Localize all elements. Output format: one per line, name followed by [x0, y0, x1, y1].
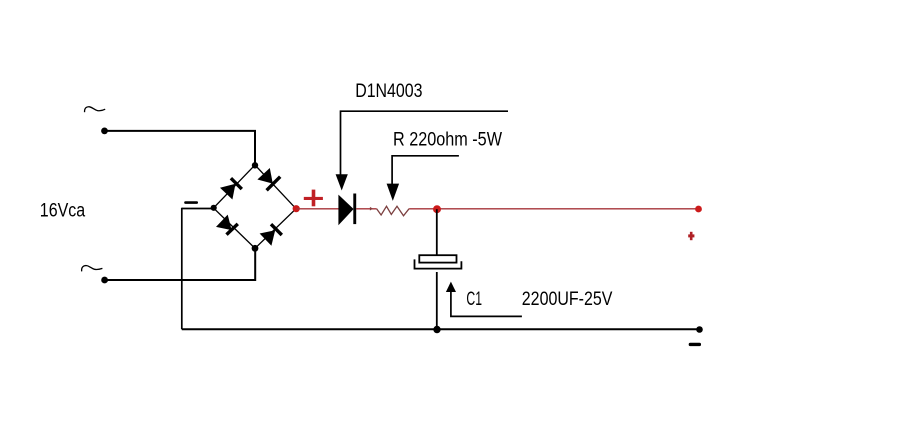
bridge diode bottom-left (anode at - node, cathode at bottom AC node)	[216, 215, 238, 235]
wire: bottom negative rail	[182, 328, 700, 330]
output terminal node minus	[696, 326, 703, 333]
minus polarity mark at output	[689, 343, 701, 346]
svg-text:2200UF-25V: 2200UF-25V	[522, 288, 613, 310]
leader line for R label	[392, 156, 459, 185]
AC terminal node (bottom)	[101, 277, 108, 284]
bridge node top (AC)	[252, 162, 258, 168]
output terminal node plus (red)	[695, 206, 702, 213]
leader arrowhead pointing up at C1	[446, 282, 456, 292]
svg-text:C1: C1	[466, 288, 482, 310]
svg-text:16Vca: 16Vca	[40, 200, 85, 222]
node: junction capacitor to negative rail	[433, 326, 440, 333]
plus polarity mark at output (red)	[688, 232, 694, 240]
diode D1N4003	[338, 194, 356, 226]
wire: bridge minus stub left	[182, 208, 214, 210]
AC terminal node (top)	[101, 127, 108, 134]
AC source tilde symbol (top)	[85, 107, 106, 112]
leader line for D1N4003 label	[341, 111, 509, 176]
wire: capacitor top lead	[436, 209, 438, 255]
leader arrowhead pointing at R	[387, 184, 400, 201]
bridge rectifier diamond outline	[214, 165, 297, 248]
svg-text:R 220ohm -5W: R 220ohm -5W	[393, 129, 502, 151]
bridge diode top-left (anode at - node, cathode at top AC node)	[220, 178, 242, 199]
resistor R (220 ohm zigzag)	[377, 206, 410, 216]
wire: minus branch down the left side	[181, 208, 183, 330]
wire: bottom AC terminal to bridge bottom	[105, 248, 256, 280]
svg-text:D1N4003: D1N4003	[355, 80, 422, 102]
wire: capacitor bottom lead	[436, 272, 438, 329]
bridge diode top-right (anode at top AC node, cathode at + node)	[257, 168, 280, 190]
minus polarity mark at bridge	[184, 201, 198, 204]
bridge node bottom (AC)	[252, 245, 259, 252]
wire: red positive rail resistor to output	[409, 208, 699, 210]
capacitor C1 positive plate	[419, 255, 456, 262]
bridge node right (plus, red)	[293, 205, 300, 212]
leader arrowhead pointing at D1	[336, 174, 348, 190]
node: junction at capacitor branch (red)	[433, 205, 441, 213]
wire: red positive rail from bridge to diode D1	[296, 208, 338, 210]
small tick on wire before resistor	[370, 207, 373, 211]
bridge diode bottom-right (anode at bottom AC node, cathode at + node)	[260, 224, 282, 246]
wire: top AC terminal to bridge top	[105, 131, 256, 165]
bridge node left (minus)	[211, 205, 217, 211]
plus polarity mark at bridge output (red)	[304, 190, 323, 207]
capacitor C1 negative plate (bracket)	[415, 259, 462, 268]
AC source tilde symbol (bottom)	[82, 266, 103, 272]
leader line for C1 label	[451, 291, 522, 317]
wire: red rail diode to resistor	[356, 208, 377, 210]
